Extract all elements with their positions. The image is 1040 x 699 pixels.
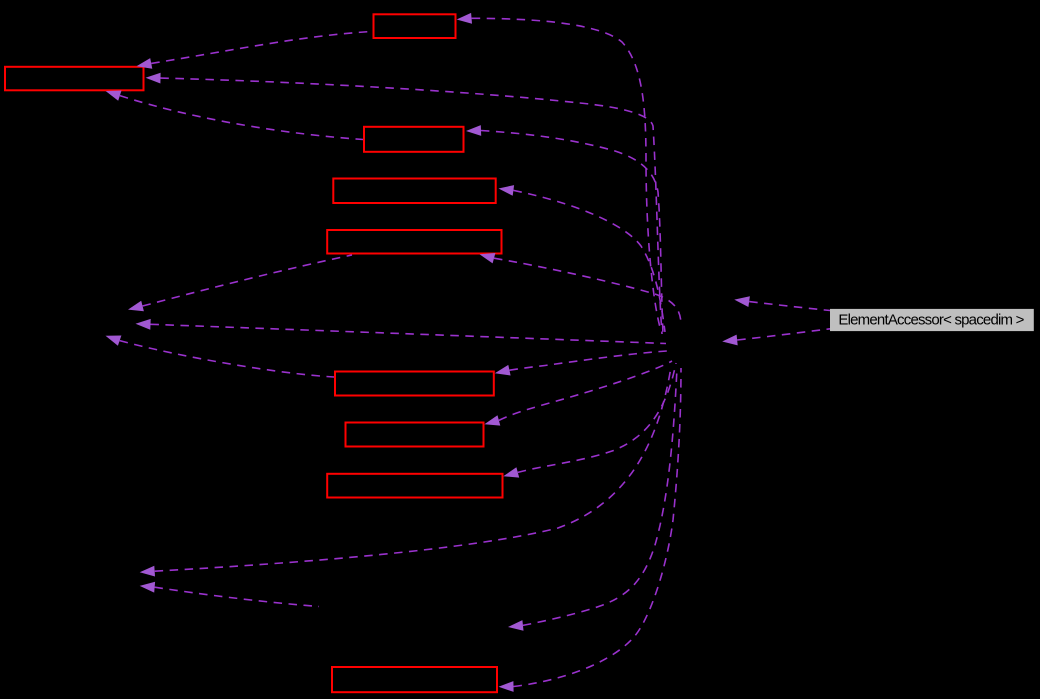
svg-text:ElementAccessor< spacedim >: ElementAccessor< spacedim > [838, 312, 1024, 329]
